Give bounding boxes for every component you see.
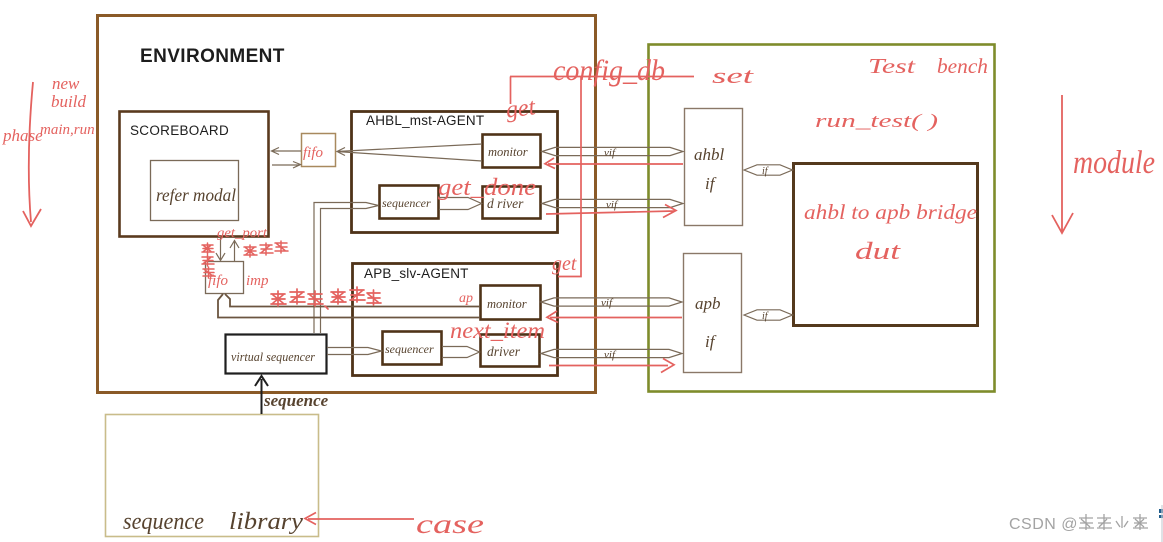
wire red-config-horizontal — [510, 76, 694, 78]
svg-text:library: library — [229, 509, 303, 535]
svg-text:ahbl: ahbl — [694, 145, 725, 164]
wire vif-bus2 — [542, 199, 683, 207]
box ENVIRONMENT — [98, 16, 596, 393]
box fifo1 — [302, 134, 336, 167]
scribble cjk-vertical-kongzhiliu — [202, 243, 215, 278]
svg-text:APB_slv-AGENT: APB_slv-AGENT — [364, 266, 469, 281]
wire red-arrow-driver1-out — [546, 205, 676, 218]
svg-text:case: case — [416, 509, 484, 539]
svg-text:if: if — [705, 174, 717, 193]
wire sequencer2-driver2-bus — [442, 347, 480, 358]
box Test-bench — [649, 45, 995, 392]
wire vs-riser-bus — [314, 203, 379, 334]
wire red-config-drop-left — [510, 77, 512, 105]
svg-text:set: set — [712, 63, 754, 88]
svg-text:ENVIRONMENT: ENVIRONMENT — [140, 46, 285, 67]
svg-text:vif: vif — [601, 297, 614, 309]
wire sequencer1-driver1-bus — [439, 198, 482, 210]
svg-text:fifo: fifo — [303, 145, 324, 161]
wire vif-bus4 — [541, 349, 682, 357]
svg-text:SCOREBOARD: SCOREBOARD — [130, 123, 229, 138]
svg-text:module: module — [1073, 145, 1155, 181]
faint right edge line — [1161, 505, 1163, 542]
svg-text:run_test( ): run_test( ) — [815, 111, 938, 132]
svg-text:vif: vif — [604, 147, 617, 159]
box AHBL-agent — [352, 112, 558, 233]
wire fifoimp-apbmonitor-lower — [218, 294, 480, 318]
scribble cjk-diagonal-shujuliu — [244, 241, 288, 257]
svg-text:get: get — [504, 94, 538, 124]
box APB-driver — [481, 335, 540, 367]
blue edge marks — [1159, 509, 1163, 513]
svg-text:vif: vif — [604, 349, 617, 361]
svg-text:main,run: main,run — [40, 122, 95, 138]
svg-text:monitor: monitor — [488, 145, 528, 159]
wire red-arrow-monitor2 — [547, 311, 682, 323]
box AHBL-driver — [483, 187, 541, 219]
wire red-module-arrow — [1052, 95, 1073, 233]
svg-text:dut: dut — [855, 239, 902, 265]
wire black-sequence-arrow — [255, 376, 268, 414]
wire scoreboard-port-up — [230, 240, 239, 261]
box ahbl-if — [685, 109, 743, 226]
wire red-case-arrow — [305, 513, 414, 525]
svg-text:bench: bench — [937, 54, 988, 78]
box APB-monitor — [481, 286, 541, 320]
wire vif-bus3 — [541, 298, 682, 306]
wire red-left-phase-arrow — [23, 82, 41, 226]
wire if-hex1 — [744, 165, 793, 175]
wire scoreboard-port-down — [216, 238, 225, 261]
wire scoreboard-fifo-upper — [272, 148, 302, 155]
svg-text:sequencer: sequencer — [385, 342, 434, 356]
wire red-config-drop-right — [558, 77, 581, 277]
svg-text:build: build — [51, 92, 86, 111]
wire fifoimp-apbmonitor-upper — [225, 294, 480, 307]
wire scoreboard-fifo-lower — [272, 162, 301, 169]
svg-text:next_item: next_item — [450, 318, 545, 343]
wire fifo-monitor-funnel — [337, 144, 483, 161]
box APB-sequencer — [383, 332, 442, 365]
svg-text:if: if — [705, 332, 717, 351]
svg-text:monitor: monitor — [487, 297, 527, 311]
box SCOREBOARD — [120, 112, 269, 237]
wire red-arrow-driver2-out — [549, 359, 674, 373]
svg-text:virtual sequencer: virtual sequencer — [231, 349, 316, 364]
box APB-agent — [353, 264, 558, 376]
svg-text:driver: driver — [487, 344, 521, 359]
svg-text:refer modal: refer modal — [156, 185, 236, 205]
wire if-hex2 — [744, 310, 793, 320]
svg-text:sequencer: sequencer — [382, 196, 431, 210]
svg-text:CSDN @: CSDN @ — [1009, 516, 1078, 533]
svg-text:new: new — [52, 74, 80, 93]
svg-text:sequence: sequence — [263, 391, 329, 410]
svg-text:ap: ap — [459, 291, 473, 306]
svg-text:Test: Test — [868, 54, 917, 78]
wire vif-bus1 — [542, 147, 683, 155]
svg-text:get: get — [552, 253, 577, 275]
svg-text:get_done: get_done — [438, 175, 536, 201]
box dut — [794, 164, 978, 326]
svg-text:config_db: config_db — [553, 54, 665, 87]
svg-text:apb: apb — [695, 294, 721, 313]
svg-text:vif: vif — [606, 199, 619, 211]
box sequence-library — [106, 415, 319, 537]
box AHBL-monitor — [483, 135, 541, 168]
watermark cjk-name — [1079, 514, 1148, 530]
svg-text:sequence: sequence — [123, 509, 204, 535]
svg-text:get_port: get_port — [217, 226, 268, 241]
box AHBL-sequencer — [380, 186, 439, 219]
box virtual-sequencer — [226, 335, 327, 374]
svg-text:phase: phase — [2, 126, 43, 145]
box apb-if — [684, 254, 742, 373]
scribble cjk-row-shujuliu-kongzhiliu — [271, 287, 381, 309]
svg-text:imp: imp — [246, 273, 269, 289]
svg-text:ahbl to apb bridge: ahbl to apb bridge — [804, 200, 977, 224]
box refer-model — [151, 161, 239, 221]
wire red-arrow-monitor1 — [545, 158, 683, 169]
wire vs-apbsequencer-bus — [327, 348, 382, 355]
svg-text:AHBL_mst-AGENT: AHBL_mst-AGENT — [366, 113, 484, 128]
box fifo-imp — [206, 262, 244, 294]
